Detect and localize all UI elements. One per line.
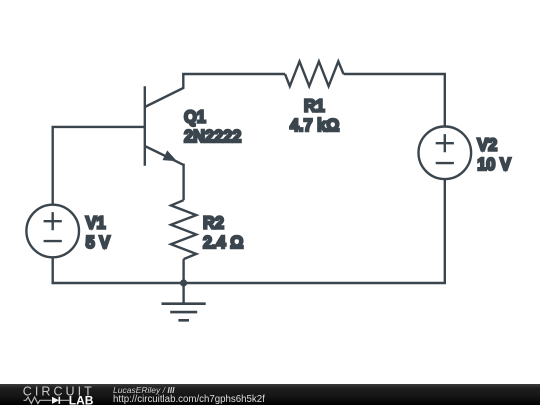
- svg-text:2.4 Ω: 2.4 Ω: [203, 232, 244, 252]
- wire collector-to-R1 top left segment: [182, 73, 285, 75]
- svg-text:LAB: LAB: [69, 393, 94, 405]
- wire V1 top up and right to transistor base: [53, 127, 145, 205]
- wire V1 bottom stub: [52, 257, 54, 284]
- logo diode: [52, 397, 59, 404]
- svg-text:V2: V2: [477, 135, 497, 155]
- V1 plus sign: [44, 212, 62, 230]
- V2 minus sign: [436, 162, 454, 164]
- ground symbol: [162, 304, 206, 321]
- ground stub: [182, 283, 184, 304]
- transistor Q1 collector diagonal and lead: [145, 74, 184, 107]
- logo resistor squiggle and diode: [24, 397, 70, 403]
- V1 minus sign: [44, 240, 62, 242]
- svg-text:V1: V1: [86, 213, 106, 233]
- svg-text:2N2222: 2N2222: [184, 126, 241, 146]
- svg-text:R1: R1: [304, 96, 325, 116]
- voltage source V1 circle: [26, 205, 79, 258]
- wire R2 to junction: [182, 259, 184, 283]
- junction node: [180, 279, 187, 286]
- footer credit text: [112, 383, 114, 385]
- transistor Q1 emitter diagonal: [145, 146, 184, 165]
- footer bar: [0, 384, 540, 405]
- transistor Q1 base bar: [144, 86, 146, 166]
- svg-text:5 V: 5 V: [86, 232, 111, 252]
- wire R1 to top-right corner and down to V2: [344, 74, 445, 127]
- svg-text:4.7 kΩ: 4.7 kΩ: [290, 115, 340, 135]
- svg-text:Q1: Q1: [184, 107, 206, 127]
- voltage source V2 circle: [419, 127, 472, 180]
- resistor R2: [171, 200, 196, 259]
- svg-text:R2: R2: [203, 213, 224, 233]
- wire emitter down to R2: [182, 164, 184, 201]
- V2 plus sign: [436, 134, 454, 152]
- svg-text:10 V: 10 V: [477, 155, 511, 175]
- wire bottom horizontal: [53, 282, 446, 284]
- transistor Q1 emitter arrow: [162, 150, 179, 166]
- wire V2 bottom down to bottom-right corner: [444, 179, 446, 283]
- resistor R1: [285, 61, 344, 86]
- CircuitLab logo: [0, 384, 100, 405]
